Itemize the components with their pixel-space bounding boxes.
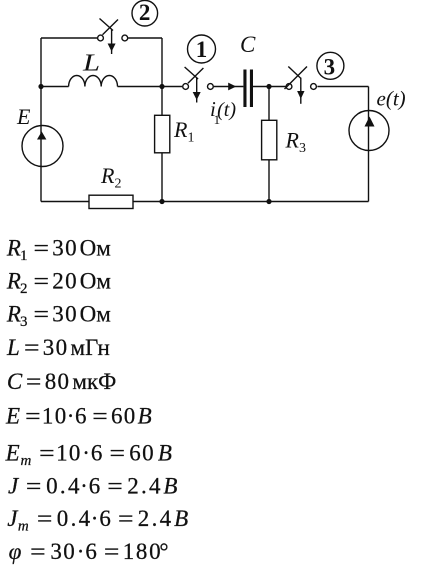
svg-text:6: 6 (91, 441, 103, 466)
voltage source e(t) circle (349, 111, 389, 151)
svg-text:мкФ: мкФ (72, 369, 116, 394)
voltage source e(t) arrow (365, 117, 375, 127)
svg-text:m: m (21, 453, 32, 469)
wire: right rail (e(t) branch) (368, 87, 370, 202)
node dot R1 top (159, 84, 164, 89)
wire: right side of top loop / R1 branch (161, 38, 163, 202)
svg-text:60: 60 (129, 441, 155, 466)
svg-text:=: = (25, 403, 41, 428)
svg-text:6: 6 (75, 403, 87, 428)
svg-text:1: 1 (20, 248, 28, 264)
svg-text:В: В (163, 474, 177, 499)
svg-text:E: E (5, 403, 20, 428)
value line R2 (6, 268, 112, 297)
value line phi (9, 539, 169, 564)
node dot R1 bottom (159, 199, 164, 204)
wire: L branch left stub (41, 86, 69, 88)
wire: R3 branch (268, 87, 270, 202)
svg-text:R: R (6, 301, 21, 326)
svg-text:R2: R2 (100, 163, 121, 192)
voltage source E circle (22, 126, 63, 167)
svg-text:i1(t): i1(t) (210, 97, 236, 127)
svg-text:R3: R3 (285, 127, 306, 156)
svg-text:мГн: мГн (71, 335, 110, 360)
svg-text:В: В (174, 506, 188, 531)
svg-text:C: C (240, 32, 256, 57)
svg-text:30: 30 (52, 236, 78, 261)
svg-text:L: L (82, 49, 100, 76)
svg-text:Ом: Ом (80, 268, 112, 293)
svg-text:0.4: 0.4 (57, 506, 93, 531)
svg-text:20: 20 (52, 268, 78, 293)
svg-text:R: R (6, 236, 21, 261)
svg-text:6: 6 (99, 506, 111, 531)
value line J (8, 474, 177, 499)
voltage source E arrow (37, 132, 46, 140)
svg-text:=: = (118, 506, 134, 531)
svg-text:30: 30 (50, 539, 76, 564)
svg-text:=: = (104, 539, 120, 564)
svg-text:В: В (158, 441, 172, 466)
wire: capacitor to switch 3 (253, 86, 286, 88)
svg-text:1: 1 (196, 37, 208, 62)
capacitor C right plate (250, 70, 253, 108)
svg-text:Ом: Ом (80, 301, 112, 326)
svg-text:80: 80 (45, 369, 71, 394)
svg-text:30: 30 (52, 301, 78, 326)
wire: switch1 to capacitor (214, 86, 244, 88)
svg-text:=: = (107, 474, 123, 499)
node dot R3 bottom (266, 199, 271, 204)
wire: top side of left loop, right segment (128, 37, 162, 39)
resistor R1 (155, 115, 170, 153)
svg-text:R: R (6, 268, 21, 293)
wire: main horizontal from node to switch 1 (162, 86, 182, 88)
svg-text:2: 2 (20, 281, 28, 297)
svg-text:·: · (91, 506, 99, 531)
svg-text:10: 10 (42, 403, 68, 428)
svg-text:·: · (80, 474, 88, 499)
svg-text:30: 30 (43, 335, 69, 360)
switch SW2 (98, 19, 128, 55)
svg-text:60: 60 (111, 403, 137, 428)
svg-text:6: 6 (89, 474, 101, 499)
wire: bottom rail (41, 201, 369, 203)
node dot left-L junction (38, 84, 43, 89)
value line R1 (6, 236, 111, 265)
svg-text:C: C (7, 369, 23, 394)
svg-text:0.4: 0.4 (46, 474, 82, 499)
value line L (6, 335, 110, 360)
svg-text:=: = (24, 335, 40, 360)
svg-text:·: · (67, 403, 75, 428)
svg-text:=: = (37, 506, 53, 531)
resistor R2 (89, 195, 133, 208)
svg-text:=: = (30, 539, 45, 564)
value line R3 (6, 301, 111, 330)
svg-text:180: 180 (123, 539, 163, 564)
label circle 1 (188, 35, 216, 63)
svg-text:2.4: 2.4 (127, 474, 163, 499)
svg-text:2.4: 2.4 (138, 506, 174, 531)
capacitor C left plate (243, 70, 246, 108)
svg-text:·: · (77, 539, 85, 564)
resistor R3 (262, 120, 277, 160)
svg-text:3: 3 (20, 314, 28, 330)
svg-text:°: ° (159, 539, 168, 564)
svg-text:·: · (82, 441, 90, 466)
svg-text:Ом: Ом (80, 236, 112, 261)
svg-text:m: m (18, 519, 29, 535)
svg-text:3: 3 (324, 54, 336, 79)
svg-text:e(t): e(t) (377, 87, 406, 111)
svg-text:E: E (5, 441, 20, 466)
label circle 3 (317, 52, 344, 79)
value line E (5, 403, 152, 428)
svg-text:=: = (92, 403, 108, 428)
svg-text:=: = (26, 474, 42, 499)
wire: left rail (E branch) (40, 38, 42, 202)
svg-text:J: J (8, 474, 20, 499)
switch SW1 (183, 67, 214, 103)
inductor L (69, 75, 118, 86)
svg-text:E: E (16, 104, 31, 129)
node dot capacitor-R3 junction (266, 84, 271, 89)
svg-text:=: = (34, 236, 50, 261)
svg-text:L: L (6, 335, 20, 360)
svg-text:R1: R1 (173, 117, 194, 146)
svg-text:=: = (34, 268, 50, 293)
label circle 2 (132, 0, 158, 26)
svg-text:В: В (138, 403, 152, 428)
wire: L branch right stub (118, 86, 163, 88)
value line Jm (7, 506, 188, 535)
svg-text:=: = (110, 441, 126, 466)
current arrow i1 (228, 83, 236, 91)
wire: top side of left loop, left segment (41, 37, 97, 39)
svg-text:=: = (34, 301, 50, 326)
switch SW3 (285, 67, 317, 104)
svg-text:10: 10 (56, 441, 82, 466)
svg-text:=: = (39, 441, 55, 466)
svg-text:2: 2 (139, 0, 151, 25)
wire: switch 3 to right corner (317, 86, 368, 88)
svg-text:=: = (26, 369, 42, 394)
svg-text:6: 6 (85, 539, 97, 564)
svg-text:φ: φ (9, 539, 22, 564)
value line C (7, 369, 116, 394)
value line Em (5, 441, 172, 470)
